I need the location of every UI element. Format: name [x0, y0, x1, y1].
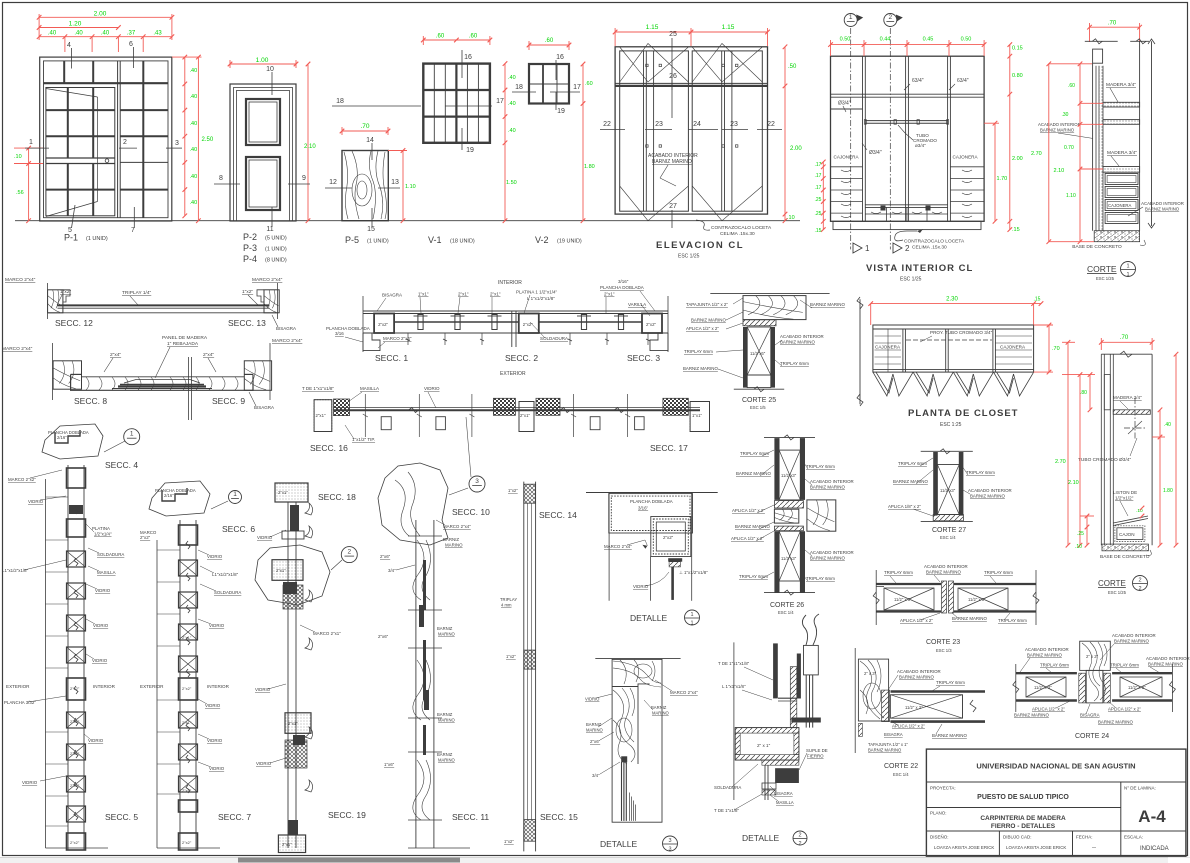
- svg-text:16: 16: [556, 54, 564, 61]
- svg-text:TRIPLAY: TRIPLAY: [500, 597, 517, 602]
- svg-text:ACABADO INTERIOR: ACABADO INTERIOR: [924, 564, 968, 569]
- svg-text:CAJONERA: CAJONERA: [1000, 345, 1026, 350]
- svg-text:15: 15: [367, 226, 375, 233]
- scrollbar track: [0, 858, 1190, 863]
- svg-text:TRIPLAY 6mm: TRIPLAY 6mm: [806, 576, 835, 581]
- closet elevation left leaf: [620, 51, 689, 211]
- svg-text:SECC. 15: SECC. 15: [540, 812, 578, 822]
- svg-text:23: 23: [655, 121, 663, 128]
- svg-text:VISTA INTERIOR CL: VISTA INTERIOR CL: [866, 263, 973, 274]
- svg-text:ACABADO INTERIOR: ACABADO INTERIOR: [968, 488, 1012, 493]
- svg-text:VIDRIO: VIDRIO: [424, 386, 440, 391]
- corte 1-1 wall jamb lines: [1092, 63, 1094, 231]
- svg-text:TRIPLAY 6mm: TRIPLAY 6mm: [740, 451, 769, 456]
- secc8-9 panel band: [71, 374, 253, 390]
- svg-text:22: 22: [603, 121, 611, 128]
- secc15 bottom hatch block: [524, 820, 536, 842]
- corte26 upper bars: [774, 438, 779, 500]
- svg-text:MARCO 2"x4": MARCO 2"x4": [272, 338, 303, 344]
- svg-text:DETALLE: DETALLE: [630, 613, 667, 623]
- svg-text:10: 10: [266, 66, 274, 73]
- detalle3 outer rect: [612, 659, 662, 822]
- svg-text:CORTE 25: CORTE 25: [742, 397, 776, 404]
- svg-text:CORTE 23: CORTE 23: [926, 639, 960, 646]
- secc10-11 strip lines: [415, 520, 417, 848]
- svg-text:MARINO: MARINO: [652, 711, 669, 716]
- door P-2 upper panel: [246, 99, 280, 145]
- door P-1 transom muntins: [63, 61, 65, 83]
- svg-text:BASE DE CONCRETO: BASE DE CONCRETO: [1100, 554, 1150, 560]
- corte22tall madera shelf: [1113, 410, 1150, 415]
- svg-text:17: 17: [573, 84, 581, 91]
- svg-text:BARNIZ MARINO: BARNIZ MARINO: [736, 471, 771, 476]
- secc10 blob wood: [378, 463, 448, 545]
- svg-text:L1"x1/2"x1/8": L1"x1/2"x1/8": [2, 568, 29, 573]
- svg-text:.40: .40: [508, 75, 516, 81]
- svg-text:2: 2: [1138, 578, 1141, 584]
- detalle3 glass lines: [621, 756, 627, 762]
- svg-text:1.15: 1.15: [646, 24, 659, 31]
- svg-text:TRIPLAY 6mm: TRIPLAY 6mm: [739, 574, 768, 579]
- svg-text:MASILLA: MASILLA: [97, 570, 116, 575]
- svg-text:FIERRO: FIERRO: [807, 754, 824, 759]
- svg-text:TRIPLAY 6mm: TRIPLAY 6mm: [684, 349, 713, 354]
- secc6 detail circle 1: [229, 491, 242, 504]
- svg-text:SECC. 6: SECC. 6: [222, 524, 255, 534]
- svg-text:TUBO CROMADO Ø3/4": TUBO CROMADO Ø3/4": [1078, 457, 1131, 463]
- detalle2 pipes wavy top: [802, 615, 807, 645]
- secc10-11 extra dark pieces: [419, 605, 424, 627]
- svg-text:0.45: 0.45: [923, 37, 934, 43]
- scrollbar thumb: [238, 858, 460, 863]
- dimension .50/2.00/.10 right of closet: [784, 47, 786, 221]
- svg-text:ESC 1/4: ESC 1/4: [778, 610, 794, 615]
- corte26 wood block right: [807, 500, 836, 531]
- svg-text:2"x6": 2"x6": [378, 634, 389, 639]
- title block outer frame: [926, 749, 1186, 856]
- svg-text:2.10: 2.10: [1054, 168, 1065, 174]
- svg-text:APLICA 1/2" x 2": APLICA 1/2" x 2": [900, 618, 933, 623]
- svg-text:2"x1": 2"x1": [276, 568, 286, 573]
- corte26 bottom line: [764, 592, 815, 594]
- svg-text:1.00: 1.00: [256, 57, 269, 64]
- svg-text:.25: .25: [1077, 531, 1084, 537]
- secc6 plancha doblada blob: [149, 481, 210, 516]
- svg-text:TAPAJUNTA 1/2" x 2": TAPAJUNTA 1/2" x 2": [686, 302, 728, 307]
- svg-text:TRIPLAY 6mm: TRIPLAY 6mm: [884, 570, 913, 575]
- scrollbar corner box: [1168, 858, 1190, 863]
- title block row lines: [926, 781, 1186, 783]
- svg-text:TRIPLAY 1/4": TRIPLAY 1/4": [122, 290, 152, 296]
- dimension .40x3 and 1.50 right of V-1: [504, 64, 506, 221]
- svg-text:2"x1": 2"x1": [278, 490, 288, 495]
- svg-text:17: 17: [496, 98, 504, 105]
- svg-text:1"x1": 1"x1": [692, 413, 702, 418]
- svg-text:MARCO 2"x4": MARCO 2"x4": [252, 277, 283, 283]
- secc14 mid hatch block: [524, 650, 536, 669]
- svg-text:MASILLA: MASILLA: [360, 386, 379, 391]
- svg-text:P-2: P-2: [243, 232, 257, 242]
- detalle2 hatch channel: [790, 667, 797, 728]
- svg-text:TRIPLAY 6mm: TRIPLAY 6mm: [780, 361, 809, 366]
- window V-1 vertical bars: [433, 64, 435, 143]
- svg-text:MADERA 3/4": MADERA 3/4": [1107, 150, 1137, 156]
- detalle2 box 2x1: [735, 728, 799, 761]
- svg-text:2"x1": 2"x1": [70, 751, 80, 756]
- svg-text:.25: .25: [815, 211, 822, 217]
- svg-text:11/2" x 3": 11/2" x 3": [1128, 685, 1146, 690]
- svg-text:ACABADO INTERIOR: ACABADO INTERIOR: [1025, 647, 1069, 652]
- secc18 top block: [275, 483, 308, 502]
- svg-text:.17: .17: [815, 185, 822, 191]
- svg-text:(19 UNID): (19 UNID): [557, 239, 582, 245]
- corte25 bottom rail: [747, 375, 771, 388]
- closet elevation outer box: [615, 47, 767, 214]
- dimension .10/.56 left of P-1: [28, 148, 30, 221]
- svg-text:ESC 1/25: ESC 1/25: [1108, 590, 1127, 595]
- svg-text:1"x2": 1"x2": [242, 289, 253, 295]
- svg-text:2"x6": 2"x6": [380, 554, 391, 559]
- svg-text:INTERIOR: INTERIOR: [93, 684, 116, 689]
- svg-text:SECC. 14: SECC. 14: [539, 510, 577, 520]
- svg-text:3/4": 3/4": [388, 568, 396, 573]
- svg-text:1: 1: [865, 244, 870, 253]
- corte27 bottom hatch: [933, 515, 963, 521]
- svg-text:SECC. 19: SECC. 19: [328, 810, 366, 820]
- svg-text:BARNIZ: BARNIZ: [437, 712, 453, 717]
- svg-text:.70: .70: [360, 123, 369, 130]
- svg-text:SECC. 17: SECC. 17: [650, 443, 688, 453]
- svg-text:ESC 1/4: ESC 1/4: [893, 772, 909, 777]
- svg-text:18: 18: [515, 84, 523, 91]
- secc18 mid pieces: [290, 505, 299, 531]
- corte22 horizontal member: [891, 690, 986, 693]
- svg-text:0.15: 0.15: [1012, 46, 1023, 52]
- svg-text:MARINO: MARINO: [438, 632, 455, 637]
- svg-text:(1 UNID): (1 UNID): [265, 247, 287, 253]
- svg-text:1.10: 1.10: [1066, 193, 1076, 199]
- svg-text:1.80: 1.80: [1163, 488, 1173, 494]
- vista interior centerline 1: [850, 28, 852, 249]
- svg-text:3: 3: [475, 478, 479, 485]
- svg-text:TRIPLAY 6mm: TRIPLAY 6mm: [984, 570, 1013, 575]
- svg-text:2"x2": 2"x2": [663, 535, 674, 540]
- secc1 plancha step left: [363, 333, 380, 351]
- dimension 2.10 right of P-2: [307, 64, 309, 221]
- svg-text:.70: .70: [1120, 335, 1129, 341]
- corte25 X panel: [747, 327, 771, 375]
- svg-text:VIDRIO: VIDRIO: [88, 738, 104, 743]
- svg-text:EXTERIOR: EXTERIOR: [500, 371, 526, 377]
- svg-text:SECC. 11: SECC. 11: [452, 812, 489, 822]
- svg-text:MARCO 2"x4": MARCO 2"x4": [2, 346, 33, 352]
- svg-text:1/2"x1/2": 1/2"x1/2": [1115, 496, 1134, 501]
- svg-text:11/2"x6": 11/2"x6": [750, 351, 766, 356]
- svg-text:BARNIZ MARINO: BARNIZ MARINO: [1114, 639, 1149, 644]
- secc1-3 top lines: [363, 310, 668, 312]
- svg-text:3: 3: [668, 847, 671, 853]
- corte22tall base concreto: [1102, 544, 1148, 551]
- svg-text:CELIMA .15x.30: CELIMA .15x.30: [912, 245, 947, 251]
- svg-text:.40: .40: [508, 128, 516, 134]
- svg-text:ESC 1/4: ESC 1/4: [940, 535, 956, 540]
- svg-text:2/16": 2/16": [164, 493, 174, 498]
- svg-text:BARNIZ MARINO: BARNIZ MARINO: [691, 318, 726, 323]
- corte22tall red dims left: [1067, 342, 1069, 545]
- svg-text:BARNIZ MARINO: BARNIZ MARINO: [810, 302, 845, 307]
- detalle1 glass support hatch: [668, 558, 682, 562]
- svg-text:CONTRAZOCALO LOCETA: CONTRAZOCALO LOCETA: [904, 239, 965, 245]
- window V-2 mullions: [542, 64, 544, 104]
- secc13 right wood block: [264, 290, 279, 313]
- corte25 ground line: [734, 388, 784, 390]
- door P-1 leaf frame: [46, 88, 115, 216]
- svg-text:2.10: 2.10: [304, 144, 316, 150]
- svg-text:2/16": 2/16": [57, 435, 67, 440]
- detalle3 top line: [595, 658, 680, 660]
- svg-text:P-4: P-4: [243, 254, 257, 264]
- secc8-9 center glass line: [188, 357, 190, 420]
- corte22tall left jamb lines: [1100, 354, 1102, 545]
- svg-text:2: 2: [1138, 586, 1141, 592]
- svg-text:2" x 3": 2" x 3": [864, 671, 877, 676]
- svg-text:APLICA 1/2" x 2": APLICA 1/2" x 2": [1108, 707, 1141, 712]
- svg-text:CARPINTERIA DE MADERA: CARPINTERIA DE MADERA: [980, 815, 1066, 822]
- corte26 top line: [764, 436, 815, 438]
- svg-text:SECC. 9: SECC. 9: [212, 396, 245, 406]
- svg-text:1"x2": 1"x2": [504, 839, 514, 844]
- svg-text:2.30: 2.30: [946, 297, 958, 303]
- svg-text:SOLDADURA: SOLDADURA: [540, 336, 568, 341]
- svg-text:PROYECTA:: PROYECTA:: [930, 786, 956, 791]
- secc18 extra hatch pieces: [283, 585, 303, 609]
- corte22 left vertical line: [854, 648, 856, 753]
- svg-text:BARNIZ MARINO: BARNIZ MARINO: [1027, 653, 1062, 658]
- svg-text:63/4": 63/4": [957, 78, 969, 84]
- svg-text:VIDRIO: VIDRIO: [205, 703, 221, 708]
- svg-text:VIDRIO: VIDRIO: [585, 697, 600, 702]
- svg-text:19: 19: [557, 108, 565, 115]
- window V-1 frame: [423, 64, 490, 143]
- corte26 junction hatch top: [774, 501, 803, 508]
- secc8 left wood block: [53, 361, 81, 389]
- svg-text:1/2"x1/4": 1/2"x1/4": [94, 532, 112, 537]
- secc12-13 edge verticals: [47, 283, 49, 319]
- svg-text:2"x4": 2"x4": [110, 352, 121, 358]
- svg-text:.40: .40: [190, 174, 198, 180]
- door P-5 wood panel: [342, 151, 388, 221]
- corte26 junction hatch bottom: [774, 526, 803, 531]
- corte23 top plate: [876, 583, 941, 585]
- svg-text:1: 1: [1126, 264, 1129, 270]
- svg-text:BISAGRA: BISAGRA: [884, 732, 903, 737]
- svg-text:BARNIZ MARINO: BARNIZ MARINO: [1148, 662, 1183, 667]
- svg-text:1"x2": 1"x2": [60, 289, 71, 295]
- svg-text:0.50: 0.50: [961, 37, 972, 43]
- secc2 boundary verticals: [511, 311, 513, 347]
- svg-text:PLANCHA DOBLADA: PLANCHA DOBLADA: [600, 285, 644, 290]
- svg-text:1: 1: [849, 14, 853, 21]
- svg-text:CORTE 22: CORTE 22: [884, 763, 918, 770]
- svg-text:MASILLA: MASILLA: [776, 800, 794, 805]
- svg-text:2"x4": 2"x4": [203, 352, 214, 358]
- svg-text:.15: .15: [1012, 227, 1020, 233]
- svg-text:ACABADO INTERIOR: ACABADO INTERIOR: [810, 550, 854, 555]
- svg-text:DIBUJO CAD:: DIBUJO CAD:: [1003, 835, 1032, 840]
- svg-text:3/16": 3/16": [618, 279, 629, 284]
- door P-1 outer frame: [40, 57, 172, 221]
- corte22tall right red dims: [1159, 410, 1161, 545]
- svg-text:MARCO 2"x4": MARCO 2"x4": [383, 336, 412, 341]
- svg-text:ø3/4": ø3/4": [915, 143, 926, 148]
- door P-1 swing lines: [46, 89, 98, 98]
- closet fold lines bottom: [620, 186, 689, 221]
- svg-text:ACABADO INTERIOR: ACABADO INTERIOR: [1141, 201, 1184, 206]
- svg-text:BARNIZ MARINO: BARNIZ MARINO: [932, 733, 967, 738]
- corte22tall right line: [1151, 354, 1153, 545]
- svg-text:2.00: 2.00: [1012, 156, 1023, 162]
- svg-text:BISAGRA: BISAGRA: [774, 791, 793, 796]
- secc4-5 wall line exterior: [45, 479, 47, 848]
- secc18 detail circle 2: [341, 547, 357, 563]
- svg-text:PLANCHA DOBLADA: PLANCHA DOBLADA: [48, 430, 89, 435]
- svg-text:BISAGRA: BISAGRA: [1080, 713, 1100, 718]
- closet fold lines top: [620, 44, 689, 83]
- corte25 top line: [710, 292, 829, 294]
- corte22tall cajon box: [1117, 528, 1143, 540]
- svg-text:DISEÑO:: DISEÑO:: [930, 834, 949, 840]
- svg-text:PLATINA: PLATINA: [92, 526, 110, 531]
- svg-text:ACABADO INTERIOR: ACABADO INTERIOR: [780, 334, 824, 339]
- svg-text:VIDRIO: VIDRIO: [257, 535, 273, 540]
- svg-text:1"x1": 1"x1": [418, 292, 429, 297]
- svg-text:2"x1": 2"x1": [282, 842, 292, 847]
- svg-text:SECC. 1: SECC. 1: [375, 353, 408, 363]
- svg-text:SOLDADURA: SOLDADURA: [214, 590, 241, 595]
- dimension .60 .60 above V-1: [423, 39, 490, 41]
- svg-text:BARNIZ MARINO: BARNIZ MARINO: [735, 524, 770, 529]
- svg-text:ESC 1/25: ESC 1/25: [678, 254, 700, 260]
- svg-text:1: 1: [690, 612, 693, 618]
- svg-text:BARNIZ MARINO: BARNIZ MARINO: [868, 748, 902, 753]
- svg-text:PLANCHA DOBLADA: PLANCHA DOBLADA: [630, 499, 673, 504]
- svg-text:11/2" x 3": 11/2" x 3": [1034, 685, 1052, 690]
- secc8-9 raised panel center: [124, 380, 200, 384]
- svg-text:BARNIZ MARINO: BARNIZ MARINO: [683, 366, 718, 371]
- svg-text:2"x2": 2"x2": [523, 322, 533, 327]
- svg-text:P-3: P-3: [243, 243, 257, 253]
- secc1-3 frame squares 2x2: [374, 314, 394, 334]
- dimension 2.50 right of P-1: [197, 57, 199, 221]
- svg-text:MARCO 2"x4": MARCO 2"x4": [443, 524, 471, 529]
- secc4 detail circle 1: [124, 429, 140, 445]
- section marker circle 2: [884, 14, 897, 27]
- corte 1-1 mid shelf madera: [1103, 167, 1140, 173]
- svg-text:.60: .60: [436, 34, 445, 40]
- svg-text:LISTON DE: LISTON DE: [1113, 490, 1137, 495]
- svg-text:14: 14: [366, 137, 374, 144]
- svg-text:0.80: 0.80: [1012, 73, 1023, 79]
- corte27 bars: [933, 452, 937, 516]
- svg-text:VIDRIO: VIDRIO: [256, 761, 272, 766]
- svg-text:2.50: 2.50: [202, 137, 214, 143]
- detalle1 glass line: [671, 567, 674, 600]
- svg-text:MARINO: MARINO: [445, 543, 463, 548]
- corte26 wood block left small: [774, 509, 798, 523]
- svg-text:2"x1": 2"x1": [458, 292, 469, 297]
- closet elevation left leaf mullions: [643, 51, 645, 211]
- svg-text:PUESTO DE SALUD TIPICO: PUESTO DE SALUD TIPICO: [977, 794, 1069, 801]
- ground line under doors/windows: [15, 220, 800, 222]
- svg-text:2"x1": 2"x1": [520, 413, 530, 418]
- secc1-3 T posts: [418, 315, 423, 330]
- svg-text:2"x1": 2"x1": [604, 292, 615, 297]
- closet elevation handles: [646, 64, 648, 66]
- secc18-19 strip lines: [287, 502, 289, 848]
- svg-text:2: 2: [347, 549, 351, 556]
- svg-text:6: 6: [129, 41, 133, 48]
- svg-text:ESC 1/5: ESC 1/5: [750, 405, 766, 410]
- svg-text:SECC. 12: SECC. 12: [55, 318, 93, 328]
- svg-text:BARNIZ MARINO: BARNIZ MARINO: [970, 494, 1005, 499]
- dimension .60 above V-2: [529, 44, 569, 46]
- dimension 1.00 above P-2: [230, 63, 296, 65]
- svg-text:PLATINA 1 1/2"x1/4": PLATINA 1 1/2"x1/4": [516, 290, 558, 295]
- corte24 left wall: [1016, 672, 1077, 674]
- svg-text:.50: .50: [788, 64, 797, 70]
- svg-text:BASE DE CONCRETO: BASE DE CONCRETO: [1072, 244, 1122, 250]
- svg-text:BARNIZ MARINO: BARNIZ MARINO: [652, 159, 692, 165]
- svg-text:2"x2": 2"x2": [182, 686, 192, 691]
- corte23 left X panel: [884, 588, 934, 610]
- svg-text:ESC 1/3: ESC 1/3: [936, 648, 952, 653]
- svg-text:FECHA:: FECHA:: [1076, 835, 1093, 840]
- vista interior centerline 2: [889, 28, 891, 249]
- svg-text:.10: .10: [1075, 544, 1082, 550]
- door P-1 transom rail: [44, 82, 169, 84]
- dimension 2.00 above P-1: [39, 16, 172, 18]
- planta right dim .70: [1048, 325, 1050, 372]
- svg-text:APLICA 1/2" x 2": APLICA 1/2" x 2": [732, 508, 765, 513]
- svg-text:.40: .40: [190, 68, 198, 74]
- secc8-9 edge verticals: [52, 343, 54, 400]
- corte23 right break: [1033, 592, 1039, 604]
- vista flags bottom: [853, 243, 862, 253]
- svg-text:CAJONERA: CAJONERA: [834, 155, 860, 160]
- planta left wall line: [859, 299, 861, 404]
- svg-text:CAJONERA: CAJONERA: [1108, 203, 1132, 208]
- detalle1 inner 2x2 box: [651, 517, 691, 557]
- svg-text:2.00: 2.00: [94, 11, 107, 18]
- corte22tall small red dims bottom: [1086, 516, 1088, 545]
- svg-text:.40: .40: [74, 31, 83, 37]
- corte25 wood lintel block: [743, 296, 806, 320]
- svg-text:BARNIZ MARINO: BARNIZ MARINO: [899, 675, 934, 680]
- corte22tall top dim .70: [1101, 341, 1152, 343]
- corte23 bottom plate: [876, 610, 941, 612]
- secc6-7 strip: [179, 520, 181, 850]
- secc14-15 strip lines: [523, 482, 525, 852]
- secc12 left wood block: [48, 290, 63, 313]
- svg-text:APLICA 1/2" x 2": APLICA 1/2" x 2": [1032, 707, 1065, 712]
- secc1-3 glass ticks below: [407, 333, 409, 345]
- svg-text:MARCO 2"x4": MARCO 2"x4": [5, 277, 36, 283]
- secc16-17 mid junction blocks: [493, 398, 515, 415]
- svg-text:N° DE LAMINA:: N° DE LAMINA:: [1124, 786, 1156, 791]
- svg-text:SECC. 3: SECC. 3: [627, 353, 660, 363]
- detalle2 lower verticals: [764, 765, 766, 800]
- svg-text:.56: .56: [16, 190, 24, 196]
